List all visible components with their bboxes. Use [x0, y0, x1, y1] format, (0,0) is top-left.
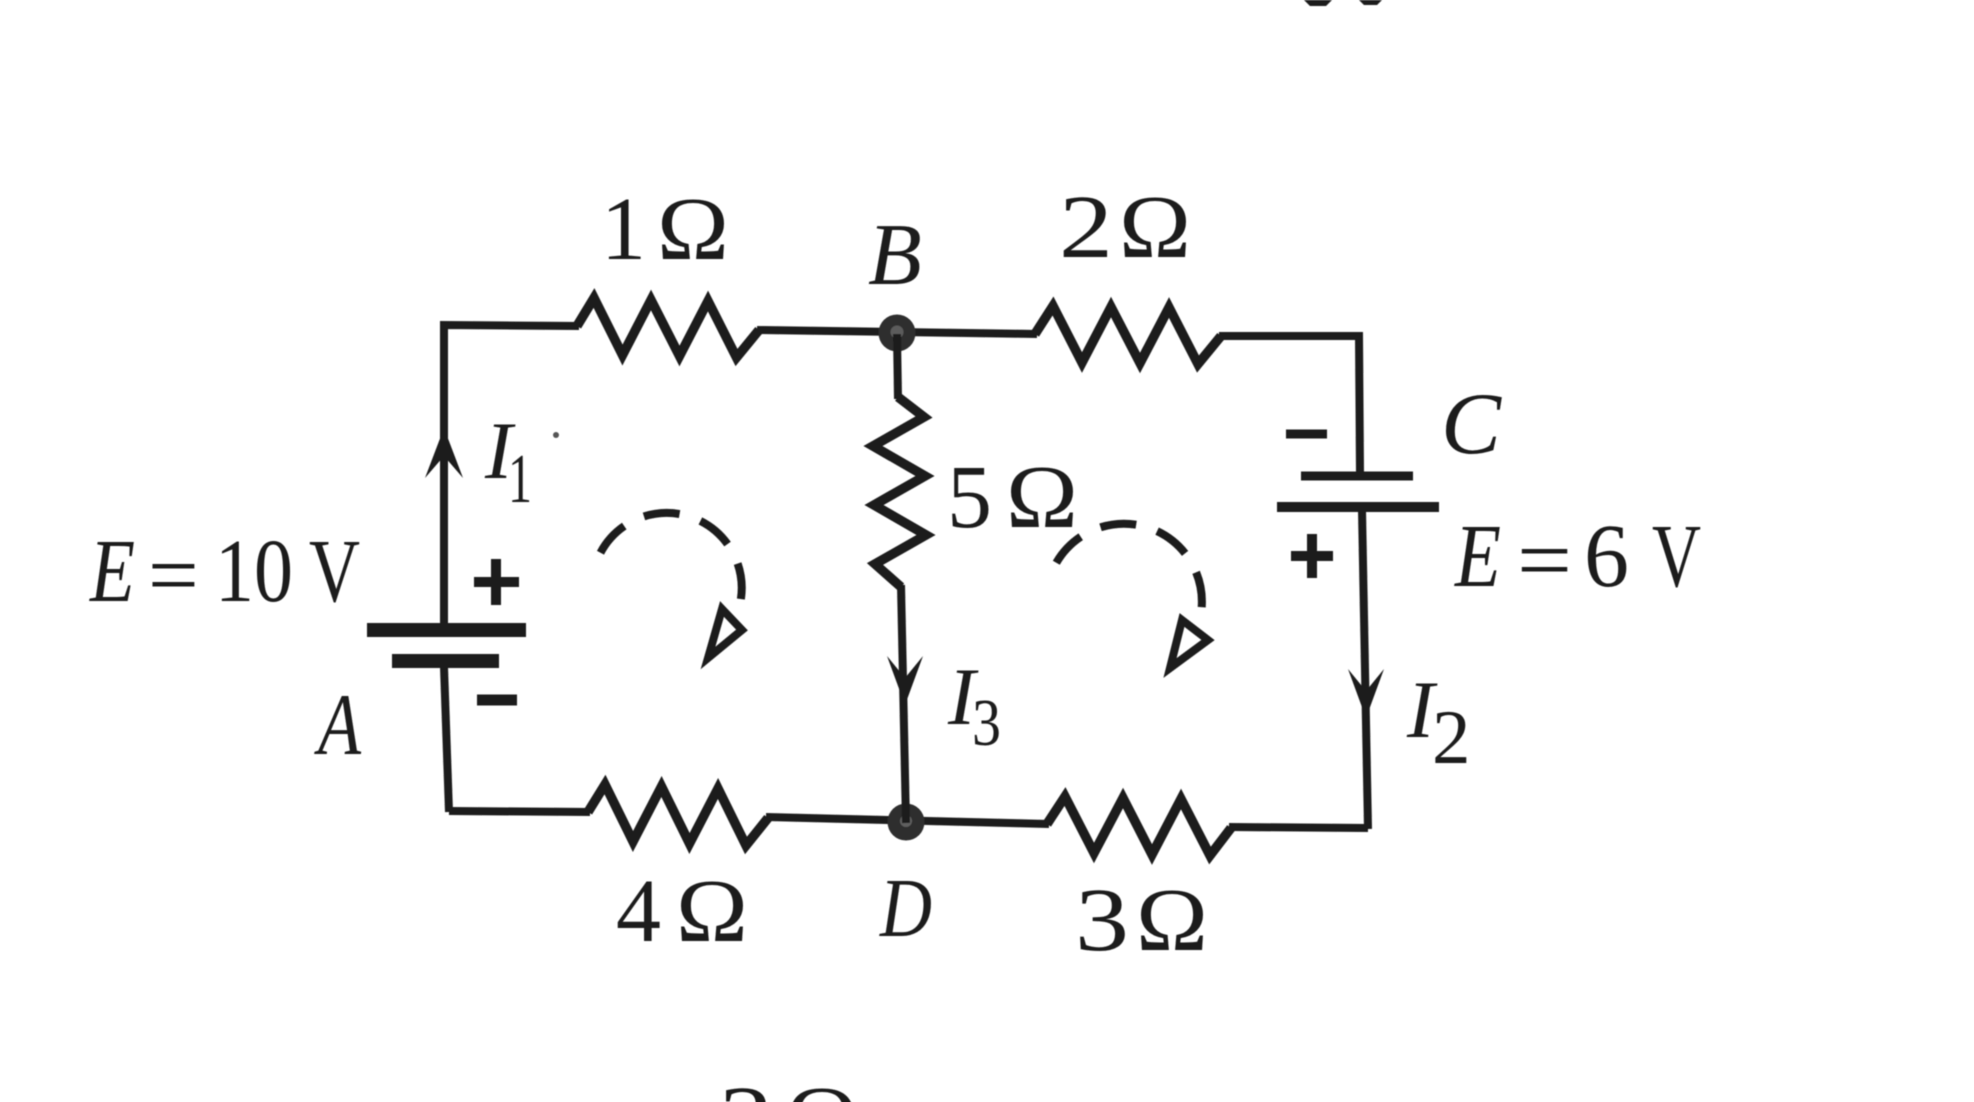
mesh 1 loop arrowhead	[708, 609, 742, 658]
resistor 2 ohm	[1035, 306, 1221, 364]
label E = 10 V	[88, 522, 360, 625]
label 4 ohm	[616, 862, 748, 961]
label D	[879, 862, 932, 955]
svg-text:Ω: Ω	[676, 862, 748, 961]
resistor 4 ohm	[588, 785, 768, 846]
label C	[1441, 376, 1502, 473]
label plus of battery E	[474, 559, 519, 605]
wire right lower	[1362, 510, 1368, 829]
svg-text:Ω: Ω	[657, 180, 729, 279]
svg-text:E: E	[88, 522, 135, 621]
current arrow I1	[425, 428, 463, 478]
svg-text:V: V	[1652, 507, 1701, 606]
svg-text:Ω: Ω	[1006, 448, 1078, 547]
svg-text:A: A	[314, 677, 362, 774]
label I3	[947, 651, 1001, 760]
svg-text:2: 2	[719, 1069, 773, 1102]
battery E negative plate	[392, 654, 499, 668]
cropped figure-number stroke right (top edge)	[1359, 0, 1382, 5]
svg-text:4: 4	[616, 862, 661, 961]
wire middle lower to node D	[901, 585, 906, 823]
cropped label 2 ohm at bottom edge	[719, 1069, 858, 1102]
label minus of battery C	[1286, 430, 1327, 439]
wire middle upper from node B	[897, 334, 898, 399]
svg-text:1: 1	[601, 180, 646, 279]
ink speck	[553, 432, 559, 438]
svg-text:=: =	[148, 526, 199, 625]
label I2	[1406, 664, 1471, 780]
svg-text:Ω: Ω	[786, 1069, 858, 1102]
current arrow I2	[1348, 669, 1384, 718]
label I1	[484, 405, 532, 518]
resistor 1 ohm	[577, 298, 759, 358]
battery C negative plate	[1301, 472, 1413, 481]
svg-text:6: 6	[1584, 507, 1629, 606]
label plus of battery C	[1291, 534, 1333, 578]
svg-text:10: 10	[215, 522, 293, 621]
label 5 ohm	[947, 448, 1078, 547]
svg-text:=: =	[1517, 511, 1572, 610]
battery E positive plate	[367, 623, 526, 637]
svg-text:B: B	[868, 207, 922, 304]
resistor 3 ohm	[1047, 797, 1231, 856]
label B	[868, 207, 922, 304]
node D	[888, 804, 925, 841]
resistor 5 ohm	[873, 397, 926, 587]
svg-text:2: 2	[1432, 694, 1471, 780]
current arrow I3	[887, 656, 923, 705]
svg-text:2: 2	[1059, 178, 1113, 277]
label minus of battery E	[477, 695, 517, 706]
svg-text:D: D	[879, 862, 932, 955]
wire top-left segment	[444, 325, 579, 628]
svg-text:1: 1	[508, 441, 532, 518]
battery C positive plate	[1277, 502, 1439, 512]
wire bottom-left segment	[449, 811, 590, 812]
mesh 2 loop arrow dashed arc	[1056, 524, 1202, 607]
svg-text:Ω: Ω	[1119, 178, 1191, 277]
wire bottom middle through node D	[766, 817, 1049, 824]
label 1 ohm	[601, 180, 729, 279]
label A	[314, 677, 362, 774]
node B	[879, 315, 916, 352]
wire top middle through node B	[757, 330, 1037, 334]
svg-text:Ω: Ω	[1136, 871, 1208, 970]
cropped figure-number stroke left (top edge)	[1304, 0, 1332, 6]
label E = 6 V	[1453, 507, 1701, 610]
wire top-right segment	[1219, 336, 1360, 473]
label 3 ohm	[1075, 871, 1208, 970]
svg-text:5: 5	[947, 448, 992, 547]
svg-text:V: V	[309, 522, 360, 621]
wire left lower	[444, 667, 449, 812]
svg-text:C: C	[1441, 376, 1502, 473]
mesh 2 loop arrowhead	[1170, 620, 1208, 668]
svg-text:3: 3	[1075, 871, 1129, 970]
svg-text:E: E	[1453, 507, 1501, 606]
svg-text:3: 3	[972, 686, 1001, 760]
wire bottom-right segment	[1229, 827, 1368, 828]
label 2 ohm	[1059, 178, 1191, 277]
mesh 1 loop arrow dashed arc	[601, 513, 742, 600]
